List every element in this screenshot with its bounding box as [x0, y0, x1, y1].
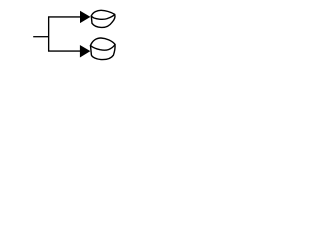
background	[0, 0, 150, 70]
wire: branch bus with two horizontal runs	[49, 17, 81, 51]
cylinder bottom: lip	[91, 45, 116, 51]
cylinder (database) top: outline	[91, 10, 115, 27]
arrowhead bottom	[80, 45, 90, 58]
wire: input stub	[33, 36, 48, 38]
cylinder top: lip	[91, 15, 114, 20]
arrowhead top	[80, 11, 90, 23]
cylinder (database) bottom: outline	[91, 38, 116, 60]
